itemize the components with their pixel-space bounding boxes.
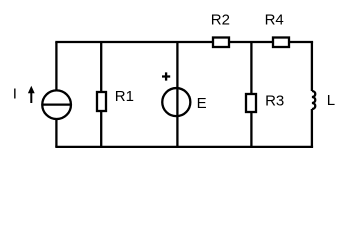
svg-text:R3: R3 bbox=[265, 92, 284, 109]
resistor R4 bbox=[273, 38, 289, 48]
wire R1 branch upper bbox=[100, 42, 102, 92]
voltage source plus sign bbox=[162, 72, 170, 80]
voltage source E circle bbox=[162, 88, 190, 116]
wire R3 branch lower bbox=[250, 112, 252, 147]
wire current source branch upper bbox=[55, 42, 57, 90]
wire top rail left segment bbox=[55, 41, 213, 43]
wire bottom rail bbox=[55, 146, 313, 148]
wire L branch upper bbox=[311, 42, 313, 91]
wire R1 branch lower bbox=[100, 111, 102, 147]
wire L branch lower bbox=[311, 109, 313, 147]
svg-text:L: L bbox=[327, 92, 335, 109]
current source I circle bbox=[42, 90, 71, 119]
resistor R2 bbox=[213, 38, 229, 48]
current source arrow bbox=[28, 86, 35, 103]
resistor R3 bbox=[246, 94, 256, 112]
wire R3 branch upper bbox=[250, 42, 252, 94]
svg-text:E: E bbox=[197, 95, 207, 112]
wire E branch bbox=[176, 42, 178, 147]
svg-text:R2: R2 bbox=[211, 12, 230, 29]
inductor L coil bbox=[312, 91, 315, 109]
wire top rail middle segment bbox=[229, 41, 273, 43]
svg-text:I: I bbox=[13, 85, 17, 102]
svg-text:R4: R4 bbox=[265, 12, 284, 29]
wire top rail right segment bbox=[289, 41, 313, 43]
wire current source branch lower bbox=[55, 119, 57, 147]
svg-text:R1: R1 bbox=[115, 88, 134, 105]
resistor R1 bbox=[97, 92, 106, 111]
current source chord line bbox=[42, 103, 71, 105]
